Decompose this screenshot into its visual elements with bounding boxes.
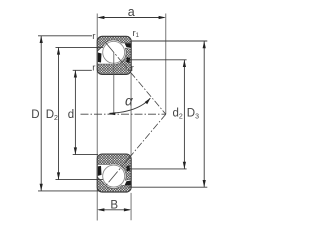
ball: [103, 41, 125, 63]
wire: extension line pressure centre x=165.8: [165, 14, 167, 115]
cage black right upper: [125, 43, 132, 48]
dimension B: [97, 200, 131, 212]
cage black left: [98, 53, 102, 63]
bearing upper section: [97, 36, 131, 74]
outer ring hatched: [97, 36, 131, 51]
svg-text:B: B: [110, 200, 118, 212]
svg-text:d: d: [68, 109, 74, 121]
wire: extension line right face x=131 between bearings: [130, 73, 132, 157]
angle alpha arc: [108, 94, 150, 116]
wire: extension line right face x=131 below bottom bearing: [130, 193, 132, 220]
svg-text:α: α: [125, 94, 134, 109]
svg-text:r: r: [92, 62, 95, 73]
bearing outline: [97, 36, 131, 74]
svg-text:a: a: [128, 5, 135, 19]
wire: extension line left face (a/B datum) x=97.2: [96, 14, 98, 221]
dimension D2: [46, 47, 103, 179]
wire: radial line from ball centre: [113, 52, 115, 114]
dimension a: [97, 5, 166, 19]
svg-text:r: r: [131, 63, 134, 74]
node axis centerline: [81, 113, 166, 115]
svg-text:D: D: [31, 109, 39, 121]
cage black right mid: [126, 57, 130, 63]
wire: contact line upper dash-dot: [131, 72, 166, 114]
wire: contact line lower dash-dot: [131, 114, 166, 156]
bearing lower section (mirror): [97, 154, 131, 192]
wire: contact line upper solid part: [105, 42, 131, 72]
dimension D: [31, 36, 101, 191]
inner ring hatched: [97, 48, 131, 74]
dimension D3: [129, 41, 208, 187]
wire: contact line lower solid part: [105, 156, 131, 186]
svg-text:r: r: [92, 31, 95, 42]
dimension d: [68, 70, 98, 154]
dimension d2: [128, 60, 186, 169]
